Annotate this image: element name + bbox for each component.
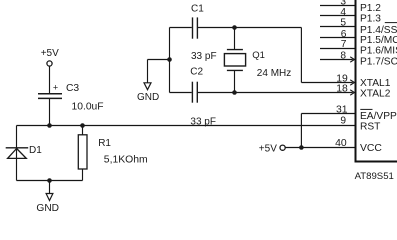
capacitor C2 plates: [192, 82, 197, 103]
pin stub 7: [320, 48, 355, 50]
wire left vertical: [169, 28, 171, 93]
wire bottom xtal left segment: [170, 92, 192, 94]
svg-text:4: 4: [340, 7, 346, 18]
svg-text:9: 9: [340, 116, 346, 127]
svg-text:C1: C1: [191, 4, 204, 15]
svg-text:VCC: VCC: [360, 143, 382, 154]
capacitor C1 plates: [193, 17, 198, 38]
ground symbol mid (crystal gnd): [144, 83, 151, 90]
svg-text:33 pF: 33 pF: [190, 116, 216, 127]
svg-text:GND: GND: [36, 203, 59, 214]
wire pin31 EA/VPP: [301, 113, 354, 115]
svg-text:P1.6/MISO: P1.6/MISO: [360, 46, 397, 57]
svg-text:10.0uF: 10.0uF: [72, 101, 104, 112]
svg-text:C3: C3: [66, 83, 79, 94]
ground symbol bottom left: [46, 194, 53, 201]
node crystal bottom: [232, 90, 237, 95]
pin stub 5: [320, 26, 355, 28]
wire D1 branch vertical: [16, 126, 18, 181]
arrowhead pin 18 XTAL2: [350, 90, 354, 95]
wire crystal bottom lead: [234, 71, 236, 93]
svg-text:GND: GND: [137, 92, 159, 103]
wire bottom xtal / XTAL2 into IC: [198, 92, 353, 94]
wire top xtal left segment: [170, 27, 192, 29]
node +5V/EA/VCC: [299, 145, 304, 150]
svg-text:AT89S51: AT89S51: [355, 171, 394, 182]
wire C3 to RST wire: [49, 99, 51, 126]
diode D1: [6, 148, 29, 159]
wire pin40 VCC: [285, 147, 354, 149]
node crystal top: [232, 25, 237, 30]
svg-text:RST: RST: [360, 121, 380, 132]
svg-text:7: 7: [341, 39, 347, 50]
wire gnd tap horizontal: [148, 59, 170, 61]
wire R1 bottom: [82, 169, 84, 181]
svg-text:5,1KOhm: 5,1KOhm: [104, 155, 148, 166]
wire R1 top: [82, 126, 84, 135]
pin stub 3: [320, 5, 355, 7]
pin stub 6: [320, 37, 355, 39]
+5V terminal circle top left: [47, 61, 52, 66]
arrowhead pin 8: [350, 57, 354, 62]
node C3/RST: [47, 123, 52, 128]
+5V terminal circle right: [280, 145, 285, 150]
svg-text:D1: D1: [29, 145, 42, 156]
svg-text:P1.2: P1.2: [360, 3, 381, 14]
wire +5V to C3: [49, 66, 51, 93]
svg-text:6: 6: [341, 29, 347, 40]
svg-text:+: +: [53, 83, 58, 93]
svg-text:40: 40: [335, 138, 347, 149]
svg-text:XTAL1: XTAL1: [360, 78, 391, 89]
node bottom gnd: [47, 178, 52, 183]
svg-text:P1.5/MOSI: P1.5/MOSI: [360, 35, 397, 46]
svg-text:+5V: +5V: [41, 48, 59, 59]
svg-text:+5V: +5V: [259, 144, 277, 155]
arrowhead pin 19 XTAL1: [350, 80, 354, 85]
wire crystal top lead: [234, 28, 236, 50]
svg-text:C2: C2: [190, 67, 203, 78]
wire bottom between D1 and R1: [17, 180, 83, 182]
IC U1 pin labels: [360, 3, 397, 154]
svg-text:Q1: Q1: [252, 50, 265, 61]
crystal Q1: [224, 50, 245, 71]
pin stub 8: [320, 59, 353, 61]
wire top xtal right segment to corner: [198, 27, 301, 29]
pin label overlines: [360, 23, 397, 110]
svg-text:18: 18: [336, 83, 348, 94]
svg-text:8: 8: [340, 50, 346, 61]
wire gnd tap vertical: [147, 60, 149, 83]
svg-text:24 MHz: 24 MHz: [257, 68, 291, 79]
svg-text:33 pF: 33 pF: [191, 51, 217, 62]
wire RST long: [17, 125, 355, 127]
pin stub 4: [320, 15, 355, 17]
svg-text:XTAL2: XTAL2: [360, 88, 391, 99]
svg-text:P1.3: P1.3: [360, 14, 381, 25]
wire gnd stub bottom: [49, 181, 51, 194]
svg-text:P1.7/SCK: P1.7/SCK: [360, 57, 397, 68]
svg-text:5: 5: [340, 18, 346, 29]
node R1/RST: [80, 123, 85, 128]
IC U1 pin numbers: [335, 0, 348, 149]
wire EA vertical: [300, 114, 302, 148]
wire XTAL1 into IC: [301, 82, 352, 84]
svg-text:EA/VPP: EA/VPP: [360, 111, 397, 122]
svg-text:31: 31: [336, 104, 348, 115]
capacitor C3 plates (polarized): [38, 94, 62, 99]
node left vertical gnd tap: [167, 57, 172, 62]
resistor R1: [78, 135, 87, 169]
IC U1 body edges: [355, 0, 397, 162]
overline SS of P1.4: [385, 22, 397, 24]
wire corner down to XTAL1 row: [300, 28, 302, 83]
svg-text:R1: R1: [98, 138, 111, 149]
overline EA: [360, 108, 372, 110]
